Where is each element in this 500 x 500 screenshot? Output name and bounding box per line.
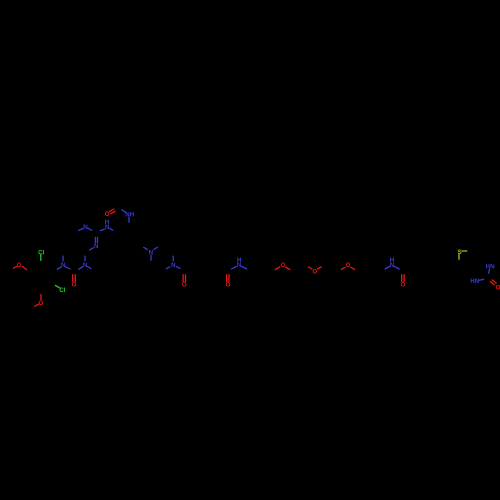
bond NH-CH2 amide3 [385, 267, 390, 270]
bond N5-C2 [88, 228, 92, 230]
charge minus on S [462, 250, 467, 252]
bond NH-C(=O) amide2 [232, 267, 237, 269]
bond O-ring (top methoxy to ring) [22, 266, 26, 269]
bond O5-CH2 right [318, 267, 322, 269]
bond C=O double (cyclic urea carbonyl) [72, 275, 74, 282]
atom O (cyclic urea carbonyl O) [72, 282, 77, 289]
atom O (amide 2 O) [226, 282, 231, 289]
bond O-CH3 (bottom methoxy methyl) [35, 304, 39, 306]
bond NH-phenyl (down) [128, 218, 130, 223]
svg-text:O: O [38, 300, 43, 307]
bond NH-C(=O) acrylamide [122, 210, 126, 213]
bond N3-C4a (up) [84, 256, 86, 261]
bond O6-CH2 right [351, 267, 355, 269]
svg-text:O: O [72, 282, 77, 289]
atom O4 (PEG ether O 1) [281, 262, 286, 269]
atom N3 (cyclic urea N, methyl side) [83, 262, 88, 269]
atom S (biotin thiolane S) [458, 249, 462, 256]
bond Np4-C3p [166, 267, 170, 269]
bond Np1-C6p [154, 247, 158, 249]
bond N1-aryl [57, 267, 61, 269]
bond C=O double (piperazine amide carbonyl) [182, 275, 184, 282]
bond O-ring (bottom methoxy to ring) [40, 294, 42, 299]
atom NH (pyrimidine C2 anilino NH, stacked) [105, 219, 110, 231]
svg-text:O: O [312, 268, 317, 275]
bond N3-C(=O) [79, 267, 83, 270]
svg-text:O: O [182, 282, 187, 289]
atom Cl1 (aryl top chloro) [38, 249, 44, 256]
bond C2=N3r double [94, 237, 96, 242]
bond O4-CH2 right [285, 267, 290, 270]
atom Np4 (piperazine N4) [171, 262, 176, 269]
bond O4-CH2 left [275, 267, 280, 270]
bond N3-CH3 [88, 267, 91, 269]
atom O (bottom methoxy) [38, 300, 43, 307]
bond N1-CH2 (up) [62, 256, 64, 261]
svg-text:N: N [105, 224, 110, 231]
svg-text:NH: NH [125, 211, 134, 218]
bond Np4-C(=O) [177, 267, 181, 269]
atom Np1 (piperazine N1) [149, 249, 154, 256]
atom N1 (cyclic urea N, aryl side) [61, 262, 66, 269]
svg-text:O: O [345, 262, 350, 269]
bond O-CH3 (top methoxy methyl) [14, 266, 17, 268]
bond NH-C(=O) amide3 [395, 266, 400, 269]
atom O5 (PEG ether O 2) [312, 268, 317, 275]
bond C=O double (acrylamide) [110, 209, 114, 212]
atom NH (amide 3 N, stacked) [390, 257, 395, 269]
bond Np1-phenyl [144, 247, 148, 249]
bond Cl1-ring [40, 255, 42, 261]
bond C=O double (amide 2 carbonyl) [226, 275, 228, 282]
svg-text:N: N [94, 243, 99, 250]
svg-text:O: O [281, 262, 286, 269]
atom HN (biotin ureido N right) [486, 263, 495, 270]
svg-text:O: O [226, 282, 231, 289]
bond Cl2-ring [55, 285, 59, 288]
atom Cl2 (aryl bottom chloro) [59, 287, 65, 294]
bond C=O double (biotin ureido carbonyl) [490, 282, 494, 285]
svg-text:N: N [390, 262, 395, 269]
bond N1-C(=O) [65, 267, 70, 269]
bond NH-C2 [100, 229, 104, 230]
svg-text:N: N [237, 262, 242, 269]
svg-text:N: N [83, 224, 88, 231]
bond Np1-C2p (down) [150, 255, 152, 260]
bond N3r-C4a [89, 248, 93, 250]
atom HN (biotin ureido N bottom) [470, 278, 479, 285]
bond HN-C(=O) biotin bottom [479, 279, 483, 280]
bond C=O double (amide 3 carbonyl) [401, 275, 403, 282]
svg-text:O: O [17, 262, 22, 269]
atom NH (acrylamide N) [125, 211, 134, 218]
svg-text:N: N [171, 262, 176, 269]
atom O (amide 3 O) [400, 281, 405, 288]
svg-text:N: N [61, 262, 66, 269]
bond S-CH2 (down) [458, 254, 460, 259]
atom O (acrylamide carbonyl O) [105, 211, 110, 218]
svg-text:O: O [400, 281, 405, 288]
svg-text:HN: HN [470, 278, 479, 285]
bond HN-C(=O) biotin right [488, 269, 491, 273]
bond Np4-C5p (up) [172, 256, 174, 261]
svg-text:N: N [83, 262, 88, 269]
bond NH-CH2 amide2 [242, 266, 247, 269]
bond O5-CH2 left [308, 267, 312, 269]
atom N3r (pyrimidine right N) [94, 243, 99, 250]
atom O (biotin ureido O) [496, 284, 500, 291]
atom NH (chain amide 2 N, stacked) [237, 257, 242, 269]
atom N5 (pyrimidine top N) [83, 224, 88, 231]
bond NH-phenyl [110, 229, 113, 231]
svg-text:HN: HN [486, 263, 495, 270]
svg-text:O: O [496, 284, 500, 291]
bond N5-C8a [79, 228, 83, 230]
bond O6-CH2 left [341, 267, 345, 269]
atom O (piperazine amide O) [182, 282, 187, 289]
atom O (top methoxy) [17, 262, 22, 269]
atom O6 (PEG ether O 3) [345, 262, 350, 269]
